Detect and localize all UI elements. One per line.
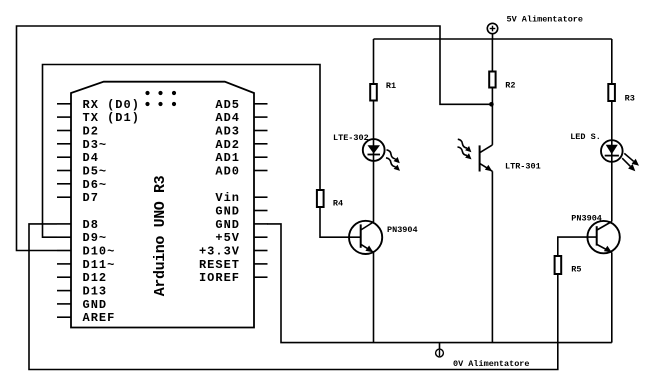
svg-text:AD0: AD0	[215, 165, 240, 179]
svg-text:D8: D8	[83, 218, 99, 232]
svg-text:D12: D12	[83, 271, 108, 285]
svg-text:PN3904: PN3904	[571, 214, 602, 224]
svg-text:+3.3V: +3.3V	[199, 245, 240, 259]
svg-text:0V Alimentatore: 0V Alimentatore	[453, 359, 530, 369]
svg-text:IOREF: IOREF	[199, 271, 240, 285]
svg-text:GND: GND	[215, 218, 240, 232]
svg-text:LTR-301: LTR-301	[505, 162, 541, 172]
svg-text:D6~: D6~	[83, 178, 108, 192]
svg-text:AD1: AD1	[215, 151, 240, 165]
svg-text:5V Alimentatore: 5V Alimentatore	[507, 15, 584, 25]
svg-text:R5: R5	[571, 265, 581, 275]
svg-text:D11~: D11~	[83, 258, 116, 272]
svg-text:GND: GND	[215, 205, 240, 219]
svg-text:R3: R3	[625, 94, 635, 104]
svg-text:AD5: AD5	[215, 98, 240, 112]
svg-text:Arduino UNO R3: Arduino UNO R3	[152, 175, 169, 296]
svg-text:D4: D4	[83, 151, 99, 165]
svg-text:RX (D0): RX (D0)	[83, 98, 140, 112]
svg-text:D2: D2	[83, 125, 99, 139]
svg-text:D5~: D5~	[83, 165, 108, 179]
svg-text:AREF: AREF	[83, 311, 116, 325]
svg-text:PN3904: PN3904	[387, 225, 418, 235]
svg-text:GND: GND	[83, 298, 108, 312]
svg-text:D10~: D10~	[83, 245, 116, 259]
svg-text:R2: R2	[505, 81, 515, 91]
svg-text:D3~: D3~	[83, 138, 108, 152]
svg-text:D9~: D9~	[83, 231, 108, 245]
svg-text:Vin: Vin	[215, 191, 240, 205]
svg-text:R1: R1	[386, 81, 396, 91]
svg-text:TX (D1): TX (D1)	[83, 111, 140, 125]
svg-text:AD2: AD2	[215, 138, 240, 152]
svg-text:AD3: AD3	[215, 125, 240, 139]
svg-text:LED S.: LED S.	[570, 132, 601, 142]
svg-text:LTE-302: LTE-302	[333, 133, 369, 143]
svg-text:R4: R4	[333, 199, 343, 209]
svg-text:+5V: +5V	[215, 231, 240, 245]
svg-text:D7: D7	[83, 191, 99, 205]
svg-text:AD4: AD4	[215, 111, 240, 125]
svg-text:RESET: RESET	[199, 258, 240, 272]
svg-text:D13: D13	[83, 285, 108, 299]
